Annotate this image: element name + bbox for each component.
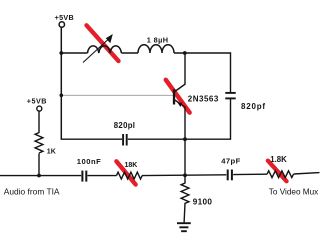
svg-text:9100: 9100 <box>193 198 213 207</box>
power terminal +5VB (top) <box>59 22 64 27</box>
svg-text:To Video Mux: To Video Mux <box>269 187 318 196</box>
wire: base line (faint) <box>61 94 173 96</box>
node: 1K to audio line <box>37 174 41 178</box>
red X over resistor 1.8K <box>268 161 287 182</box>
wire: audio line cap to 18K <box>88 175 117 177</box>
svg-text:47pF: 47pF <box>221 156 240 165</box>
capacitor C3 820pf (right) <box>225 92 235 94</box>
wire: left rail to variable inductor <box>61 52 87 54</box>
wire: collector vertical <box>184 53 186 85</box>
arrow of variable inductor <box>83 40 108 63</box>
capacitor C2 820pl (feedback) <box>122 134 124 146</box>
wire: top terminal down left rail <box>60 27 62 139</box>
red X over resistor 18K <box>116 161 135 184</box>
node: collector junction <box>183 51 187 55</box>
wire: emitter vertical <box>184 107 186 176</box>
node: base junction on left rail <box>60 94 64 98</box>
capacitor C4 47pF <box>227 170 229 181</box>
wire: feedback bottom line left part <box>61 138 122 140</box>
svg-text:18K: 18K <box>125 162 138 169</box>
wire: audio line left segment <box>0 175 81 177</box>
svg-text:Audio from TIA: Audio from TIA <box>4 186 60 196</box>
inductor L2 1.8uH <box>138 45 174 53</box>
node: left rail / top wire junction <box>59 51 63 55</box>
svg-text:2N3563: 2N3563 <box>188 95 219 104</box>
node: emitter / feedback junction <box>183 137 187 141</box>
wire: inductor to right corner <box>174 52 231 54</box>
red X over transistor Q1 <box>166 80 190 113</box>
resistor R1 1K <box>38 111 40 133</box>
wire: feedback bottom line right part <box>128 138 231 140</box>
resistor R2 18K (crossed out) <box>117 172 143 179</box>
svg-text:820pl: 820pl <box>114 121 135 130</box>
svg-text:100nF: 100nF <box>77 157 101 166</box>
wire: 18K to emitter node <box>142 174 226 177</box>
ground <box>177 222 191 224</box>
svg-text:+5VB: +5VB <box>55 13 74 22</box>
red X over variable inductor L1 <box>87 25 119 61</box>
wire: 47pF to 1.8K <box>233 173 267 175</box>
svg-text:1 8µH: 1 8µH <box>147 35 169 44</box>
svg-text:1K: 1K <box>47 148 56 155</box>
capacitor C1 100nF <box>81 171 83 182</box>
wire: right vertical upper <box>230 52 232 92</box>
wire: right vertical lower <box>230 99 232 140</box>
wire: 1.8K to right edge <box>294 173 320 174</box>
inductor L1 (variable, crossed out) <box>88 46 122 53</box>
svg-text:+5VB: +5VB <box>27 96 47 105</box>
power terminal +5VB (left) <box>37 106 42 111</box>
svg-text:820pf: 820pf <box>241 102 266 111</box>
wire: between inductors <box>121 52 138 54</box>
node: emitter on audio line <box>183 173 187 177</box>
resistor R3 1.8K (crossed out) <box>267 171 293 178</box>
resistor R4 9100 <box>181 176 189 223</box>
svg-text:1.8K: 1.8K <box>270 155 287 164</box>
transistor Q1 2N3563 <box>175 84 186 92</box>
